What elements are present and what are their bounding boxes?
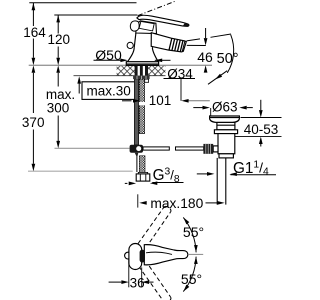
- dimension 101 (center distance): [122, 100, 132, 102]
- svg-text:120: 120: [48, 32, 71, 47]
- handle top view dashed up position: [138, 205, 172, 249]
- drain body: [218, 134, 235, 154]
- pop-up rod (above ball joint): [135, 79, 139, 145]
- handle top view solid: [125, 252, 132, 259]
- handle top view dashed down position: [138, 260, 172, 300]
- cartridge dome: [136, 21, 157, 34]
- horizontal pop-up rod: [143, 147, 169, 150]
- extension line rod level: [55, 147, 130, 149]
- threaded shank through deck: [135, 65, 148, 76]
- svg-text:55°: 55°: [181, 271, 202, 287]
- rod stem into drain: [213, 146, 218, 152]
- svg-text:46: 46: [197, 49, 213, 65]
- faucet base plate: [126, 62, 158, 66]
- rod knob on drain: [203, 144, 213, 154]
- G3/8 hose nut: [136, 174, 150, 181]
- 55 degree arc lower: [183, 257, 196, 292]
- dimension max.180: [137, 194, 139, 207]
- extension line hose end level: [28, 170, 133, 172]
- spout angle leader upper: [187, 39, 201, 41]
- gap in hose at 101 dimension: [139, 102, 145, 105]
- drain neck: [217, 122, 235, 129]
- dimension 36 (handle width): [128, 259, 130, 287]
- dimension max.30 (deck thickness): [82, 82, 135, 100]
- pop-up rod ball joint: [130, 145, 143, 153]
- spout outlet leader lower: [187, 44, 206, 46]
- drain locknut ring: [214, 130, 237, 134]
- supply hose braided strip upper: [139, 79, 144, 133]
- bidet deck cross-hatch right: [148, 66, 165, 76]
- svg-text:Ø63: Ø63: [212, 99, 238, 114]
- svg-text:101: 101: [149, 93, 172, 108]
- dimension G1 1/4 (drain thread): [197, 173, 207, 175]
- svg-text:40-53: 40-53: [244, 122, 279, 137]
- pop-up drain flange: [210, 116, 240, 154]
- lever blade: [137, 15, 189, 26]
- svg-text:50°: 50°: [217, 51, 239, 67]
- lever rear blob: [130, 21, 139, 31]
- faucet body: [128, 33, 159, 62]
- lever tip dark: [183, 23, 189, 26]
- svg-text:Ø34: Ø34: [167, 67, 193, 82]
- hose crimp fitting: [145, 79, 149, 82]
- drain bottom ring: [219, 154, 233, 158]
- handle centerline: [188, 253, 203, 255]
- deck surface line: [29, 64, 212, 66]
- G3/8 hose nut collar: [138, 172, 147, 174]
- svg-text:164: 164: [23, 25, 46, 40]
- svg-text:370: 370: [22, 115, 45, 130]
- raised lever dash-dot line: [138, 1, 176, 16]
- drain tailpipe: [216, 158, 218, 205]
- svg-text:55°: 55°: [183, 224, 204, 240]
- supply hose braided strip lower: [139, 156, 145, 174]
- reference line 120 lever rest height: [54, 14, 137, 16]
- deck underside line: [74, 75, 166, 77]
- svg-text:max.180: max.180: [150, 196, 203, 211]
- 55 degree arc upper: [183, 217, 196, 252]
- dimension 370: [32, 73, 34, 164]
- dimension 164: [32, 3, 34, 58]
- mounting nut below deck: [133, 76, 150, 79]
- spout with aerator: [151, 33, 186, 52]
- dimension 46 (outlet height): [205, 28, 207, 38]
- dimension diameter 63 (flange): [193, 107, 202, 109]
- dimension max.300: [57, 73, 59, 141]
- bidet deck cross-hatch left: [117, 66, 135, 76]
- pop-up rod lower thin section: [135, 153, 139, 156]
- pop-up knob circle on body: [127, 42, 133, 48]
- dimension 40-53 (flange height range): [241, 117, 282, 119]
- dimension 120: [57, 15, 59, 58]
- svg-text:300: 300: [47, 101, 70, 116]
- svg-text:max.30: max.30: [87, 83, 131, 98]
- svg-text:36: 36: [130, 276, 145, 291]
- top reference line (164 max lever height): [29, 2, 136, 4]
